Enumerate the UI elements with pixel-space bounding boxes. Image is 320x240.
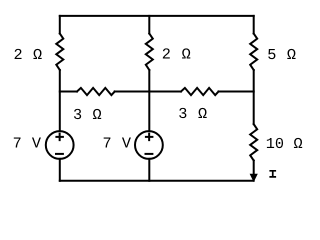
wire middle horizontal right segment [219,91,254,93]
wire left-mid [59,70,61,131]
wire mid-mid [148,70,150,131]
svg-text:3 Ω: 3 Ω [73,106,102,124]
wire right-arrow [253,161,255,174]
svg-text:5 Ω: 5 Ω [267,46,296,64]
wire right-mid [253,70,255,124]
svg-text:7 V: 7 V [13,135,42,153]
svg-text:10 Ω: 10 Ω [266,135,303,153]
V2 minus [146,153,153,155]
resistor R4 3ohm left [77,88,115,95]
svg-text:2 Ω: 2 Ω [162,45,191,63]
wire mid-top [148,16,150,34]
resistor R5 3ohm right [181,88,219,95]
voltage source V1 7V [46,131,74,159]
wire left-top [59,16,61,34]
wire middle horizontal center segment [115,91,181,93]
voltage source V2 7V [135,131,163,159]
svg-text:2 Ω: 2 Ω [14,46,43,64]
V1 plus [56,134,63,140]
wire right-top [253,16,255,34]
V1 minus [56,153,63,155]
svg-text:7 V: 7 V [103,135,132,153]
resistor R3 5ohm [250,34,257,71]
wire bottom [60,180,254,182]
wire top [60,15,254,17]
label current I [269,171,276,177]
current arrow head I [250,174,257,181]
resistor R2 2ohm middle [146,34,153,71]
svg-text:3 Ω: 3 Ω [178,105,207,123]
wire middle horizontal left segment [60,91,77,93]
resistor R1 2ohm left [56,34,63,71]
wire left-bottom [59,159,61,181]
resistor R6 10ohm [250,124,257,160]
V2 plus [146,134,153,140]
wire mid-bottom [148,159,150,181]
